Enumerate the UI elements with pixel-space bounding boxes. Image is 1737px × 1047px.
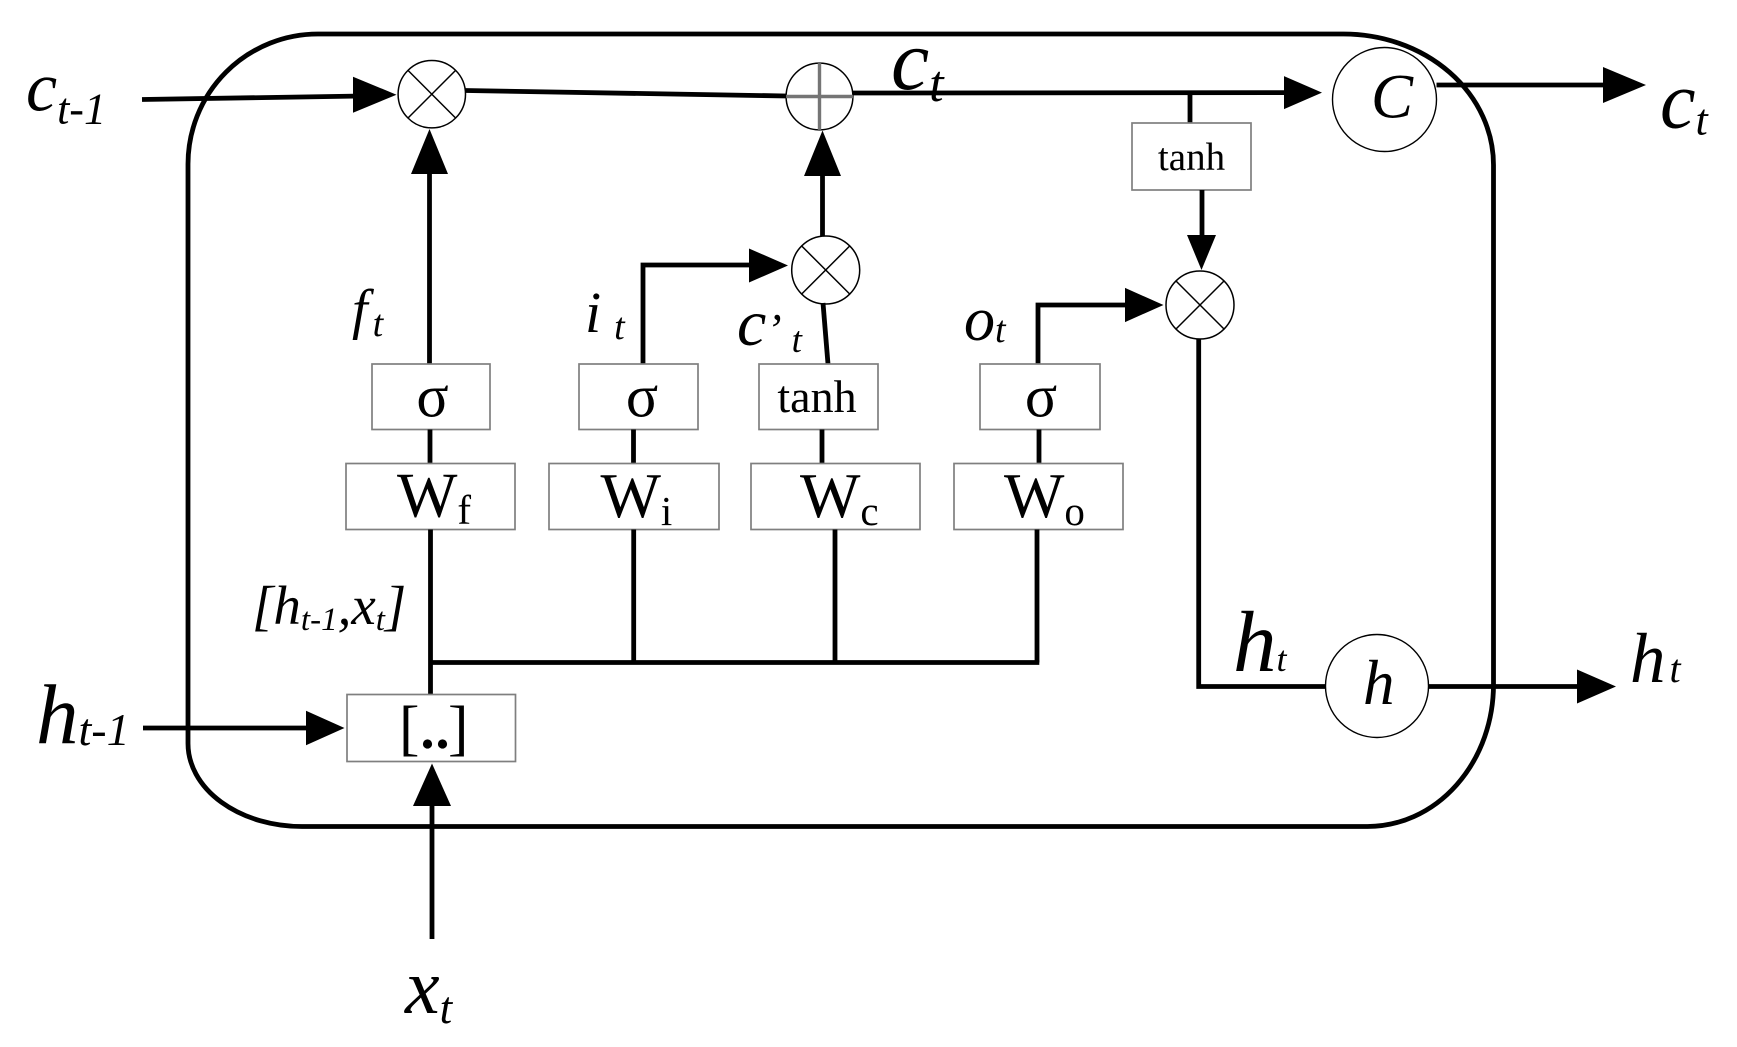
wire h node output [1429, 684, 1587, 689]
wire W_c down to bus [833, 530, 838, 663]
concat box [347, 695, 516, 762]
h output node [1326, 635, 1429, 738]
svg-text:h: h [1363, 648, 1395, 718]
connector sigma_o to W_o [1037, 430, 1042, 464]
wire o_t elbow [1038, 305, 1128, 364]
wire W_i down to bus [631, 530, 636, 663]
connector sigma_f to W_f [428, 430, 433, 464]
svg-text:σ: σ [626, 364, 658, 430]
wire multiply to add [466, 91, 787, 97]
wire f_t arrow to multiply [427, 172, 432, 364]
sigma box input gate [579, 364, 698, 430]
wire C node output [1437, 83, 1611, 88]
wire tanh to output multiply [1200, 190, 1205, 238]
connector tanh to W_c [820, 430, 825, 464]
wire junction to tanh box [1188, 92, 1193, 123]
weight box W_c [751, 464, 920, 530]
wire add to C node [853, 90, 1292, 95]
svg-text:tanh: tanh [1158, 136, 1225, 179]
svg-text:tanh: tanh [777, 371, 856, 422]
weight box W_f [346, 464, 515, 530]
tanh box candidate [759, 364, 878, 430]
multiply node (input gate product) [792, 236, 860, 304]
svg-text:σ: σ [416, 364, 448, 430]
sigma box output gate [980, 364, 1100, 430]
wire W_o down to bus [1035, 530, 1040, 663]
wire W_f down to concat box [428, 530, 433, 696]
svg-text:C: C [1371, 62, 1414, 132]
wire h_t-1 input [143, 726, 314, 731]
connector sigma_i to W_i [631, 430, 636, 464]
weight box W_i [549, 464, 719, 530]
add node [786, 63, 853, 130]
svg-text:σ: σ [1025, 364, 1057, 430]
multiply node (output gate product) [1166, 271, 1234, 339]
bus wire [431, 660, 1040, 665]
LSTM cell boundary [188, 34, 1494, 827]
wire multiply to tanh (candidate) [823, 303, 828, 364]
multiply node (forget gate product) [398, 60, 465, 127]
tanh box (cell output activation) [1132, 123, 1251, 190]
wire i_t elbow [643, 265, 752, 364]
wire candidate multiply up to add [820, 174, 825, 238]
weight box W_o [954, 464, 1123, 530]
wire x_t input [430, 800, 435, 939]
wire c_t-1 input [142, 96, 362, 100]
sigma box forget gate [372, 364, 490, 430]
C output node [1333, 48, 1437, 152]
wire output multiply to h node [1199, 339, 1326, 687]
